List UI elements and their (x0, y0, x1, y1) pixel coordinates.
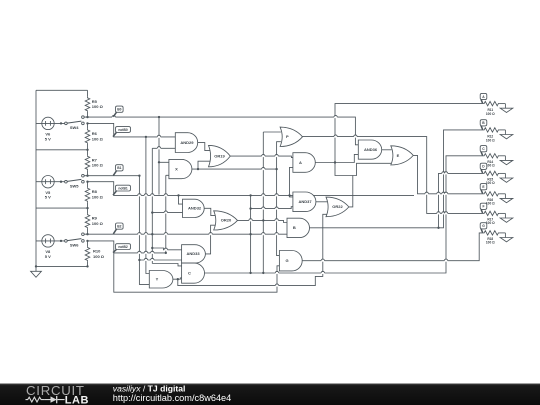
svg-text:SW5: SW5 (70, 183, 79, 188)
junction dots (35, 265, 37, 267)
and-gate X (169, 159, 192, 178)
resistor R16 (483, 192, 499, 196)
svg-text:AND32: AND32 (188, 206, 202, 211)
svg-text:100 Ω: 100 Ω (486, 138, 495, 142)
resistor R10 (87, 241, 89, 267)
wire C out (205, 156, 484, 273)
and-gate AND36 (358, 140, 381, 159)
flag G (481, 229, 483, 233)
svg-text:http://circuitlab.com/c8w64e4: http://circuitlab.com/c8w64e4 (113, 393, 231, 403)
resistor R11 (483, 101, 499, 105)
svg-text:AND37: AND37 (298, 199, 312, 204)
svg-text:5 V: 5 V (45, 136, 51, 141)
resistor R12 (483, 128, 499, 132)
flag notB1 (113, 191, 116, 195)
flag D (481, 169, 483, 173)
flag F (481, 209, 483, 213)
wire hops (112, 116, 115, 118)
wire v4 B0 drop (159, 117, 169, 195)
ground main (31, 266, 42, 277)
svg-text:R9: R9 (92, 216, 98, 221)
wire OR19 out (230, 156, 293, 158)
voltage source V8 (36, 240, 65, 242)
wire notB1 (88, 182, 415, 196)
resistor R9 (87, 208, 89, 234)
wire AND37 lower feed (251, 195, 293, 273)
wire OR22 out (349, 176, 353, 207)
wire v3 B2 tap (152, 148, 182, 266)
wire G out (302, 233, 483, 261)
svg-text:B0: B0 (117, 107, 121, 111)
and-gate Y (149, 271, 173, 289)
resistor R14 (483, 154, 499, 158)
svg-text:B2: B2 (117, 224, 121, 228)
svg-text:OR19: OR19 (214, 153, 225, 158)
svg-text:100 Ω: 100 Ω (92, 136, 104, 141)
svg-text:B1: B1 (117, 166, 121, 170)
svg-text:OR20: OR20 (221, 218, 232, 223)
wire AND33 lower feed (139, 259, 181, 261)
svg-text:AND36: AND36 (364, 147, 378, 152)
wire v2 to Y (146, 137, 149, 274)
resistor R17 (483, 211, 499, 215)
svg-text:100 Ω: 100 Ω (92, 221, 104, 226)
wire AND29 out (198, 143, 211, 151)
svg-text:100 Ω: 100 Ω (92, 163, 104, 168)
svg-text:100 Ω: 100 Ω (486, 241, 495, 245)
svg-text:100 Ω: 100 Ω (486, 201, 495, 205)
and-gate AND29 (175, 133, 197, 153)
wire top (36, 89, 88, 91)
wire v5 X-C (166, 175, 169, 253)
or-gate OR22 (326, 197, 349, 217)
svg-text:100 Ω: 100 Ω (486, 181, 495, 185)
svg-text:5 V: 5 V (45, 195, 51, 200)
wire B out (310, 130, 484, 228)
switch SW5 (65, 180, 68, 183)
flag notB0 (113, 132, 116, 136)
or-gate P (280, 127, 302, 146)
and-gate C (182, 263, 205, 283)
flag C (481, 152, 483, 156)
svg-text:AND29: AND29 (180, 140, 194, 145)
svg-text:X: X (175, 166, 178, 171)
wire B2 row (84, 233, 287, 235)
svg-text:100 Ω: 100 Ω (93, 254, 105, 259)
wire A feeder (335, 104, 483, 163)
svg-text:A: A (299, 160, 302, 165)
svg-text:E: E (397, 153, 400, 158)
svg-text:R8: R8 (92, 189, 98, 194)
wire left bus (35, 90, 37, 266)
svg-text:100 Ω: 100 Ω (486, 221, 495, 225)
wire AND32 top feed (179, 195, 183, 204)
ground A (500, 104, 513, 113)
svg-text:LAB: LAB (65, 394, 89, 405)
and-gate A (293, 153, 315, 173)
ground G (500, 233, 513, 242)
svg-text:R5: R5 (92, 99, 98, 104)
wire mid 1 (36, 207, 88, 209)
svg-text:SW4: SW4 (70, 125, 79, 130)
svg-text:100 Ω: 100 Ω (92, 104, 104, 109)
svg-text:vasiliyx / TJ digital: vasiliyx / TJ digital (113, 384, 186, 394)
and-gate B (287, 218, 310, 237)
svg-text:OR22: OR22 (332, 204, 343, 209)
wire mid 0 (36, 149, 88, 151)
svg-text:G: G (285, 258, 288, 263)
svg-text:notB1: notB1 (118, 186, 128, 190)
svg-text:R7: R7 (92, 157, 98, 162)
wire OR20 out (238, 220, 288, 222)
wire D feeder (439, 173, 484, 227)
resistor R15 (483, 171, 499, 175)
wire P out (303, 137, 484, 214)
and-gate AND37 (293, 192, 316, 212)
ground F (500, 213, 513, 222)
svg-text:SW6: SW6 (70, 243, 79, 248)
ground E (500, 194, 513, 203)
wire X out (192, 142, 281, 256)
svg-text:Y: Y (156, 277, 159, 282)
switch SW6 (65, 240, 68, 243)
wire notB2 branch (114, 252, 166, 254)
svg-text:C: C (188, 270, 191, 275)
wire AND32 out (204, 208, 215, 215)
svg-text:notB0: notB0 (118, 128, 128, 132)
wire notB0 (88, 123, 176, 136)
resistor R5 (87, 90, 89, 117)
wire AND37 out (316, 201, 327, 203)
flag B1 (113, 171, 116, 176)
wire AND36 out (382, 149, 392, 151)
resistor R7 (87, 150, 89, 176)
svg-text:G: G (482, 224, 485, 228)
flag B2 (113, 229, 116, 234)
or-gate E (391, 146, 414, 165)
svg-text:R10: R10 (93, 248, 101, 253)
svg-text:R6: R6 (92, 131, 98, 136)
svg-text:F: F (482, 205, 484, 209)
and-gate G (279, 251, 302, 271)
svg-text:100 Ω: 100 Ω (92, 195, 104, 200)
svg-text:AND33: AND33 (186, 251, 200, 256)
wire Y out (173, 214, 327, 285)
wire E out (413, 155, 483, 193)
svg-text:B: B (293, 225, 296, 230)
flag A (481, 100, 483, 104)
ground B (500, 130, 513, 139)
voltage source V5 (36, 181, 65, 183)
wire B0 row (84, 117, 358, 145)
resistor R6 (87, 123, 89, 149)
or-gate OR19 (209, 145, 231, 166)
flag B (481, 126, 483, 130)
wire A out (315, 154, 358, 162)
flag B0 (113, 112, 116, 117)
wire notB1 A/AND37 feed (290, 167, 293, 197)
resistor R18 (483, 231, 499, 235)
voltage source V6 (36, 122, 65, 124)
svg-text:P: P (286, 134, 289, 139)
wire notB2 (88, 241, 280, 292)
svg-text:100 Ω: 100 Ω (486, 112, 495, 116)
and-gate AND32 (183, 199, 205, 217)
or-gate OR20 (214, 211, 238, 230)
and-gate AND33 (182, 245, 206, 263)
ground D (500, 173, 513, 182)
svg-text:100 Ω: 100 Ω (486, 163, 495, 167)
ground C (500, 156, 513, 165)
flag notB2 (113, 250, 116, 253)
wire P top feed (263, 132, 281, 273)
svg-text:notB2: notB2 (118, 245, 128, 249)
wire B1 row (84, 176, 149, 285)
wire AND33 out (205, 225, 215, 254)
svg-text:5 V: 5 V (45, 254, 51, 259)
flag E (481, 190, 483, 194)
wire E bottom feed (335, 163, 392, 176)
wire mid 2 (36, 265, 88, 267)
resistor R8 (87, 182, 89, 208)
switch SW4 (65, 122, 68, 125)
